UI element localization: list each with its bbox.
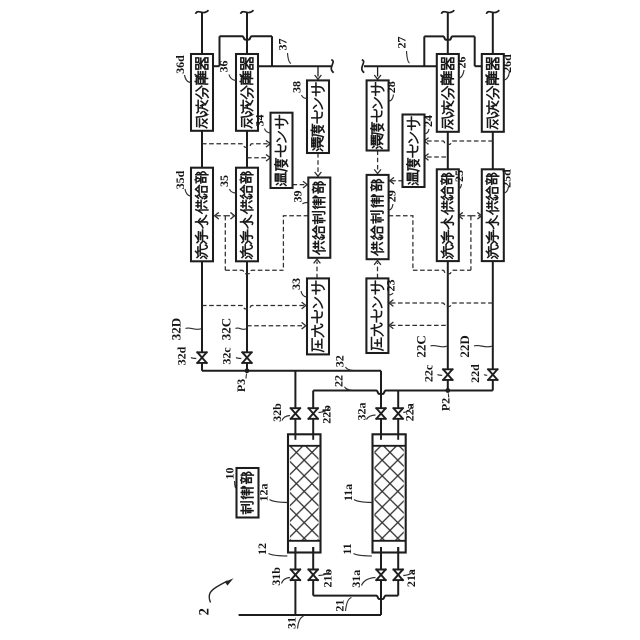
node P2 junction dot <box>445 388 450 393</box>
dashed line pressure sensor 23 to supply controller 29 <box>377 263 379 279</box>
dashed pressure tap riser D to pressure sensor 23 <box>391 303 493 306</box>
adsorption tower 11 with packed bed 11a <box>373 434 406 552</box>
svg-text:25: 25 <box>452 170 466 182</box>
svg-text:P3: P3 <box>234 379 248 392</box>
svg-text:36d: 36d <box>173 55 187 74</box>
svg-text:22: 22 <box>331 375 345 387</box>
dashed sensing line riser D to temperature sensor 24 <box>427 141 493 144</box>
pipe break mark top riser 26 <box>441 10 454 14</box>
svg-text:29: 29 <box>384 190 398 202</box>
svg-text:25d: 25d <box>499 169 513 188</box>
svg-text:35d: 35d <box>173 170 187 189</box>
valve 31b <box>291 570 300 581</box>
concentration sensor 28 <box>367 80 389 150</box>
svg-text:26: 26 <box>454 57 468 69</box>
dashed sensing line riser A to temperature sensor 34 <box>202 144 268 147</box>
controller 10 <box>237 468 259 518</box>
valve 21b <box>309 570 318 581</box>
wire tower 11 bottom pipes <box>380 547 382 570</box>
svg-text:22C: 22C <box>413 335 428 357</box>
wire line 21 connecting valves 21b and 21a <box>312 580 314 596</box>
svg-text:22c: 22c <box>422 364 436 382</box>
dashed control loop supply controller 29 to wash water units 25 25d <box>389 216 413 270</box>
gas-liquid separator 26 <box>437 54 459 132</box>
dashed control loop supply controller 39 to wash water units 35d 35 <box>283 216 308 270</box>
svg-text:11: 11 <box>340 543 354 554</box>
wire tower 12 bottom pipes <box>294 547 296 570</box>
dashed sensing line riser C to temperature sensor 24 <box>427 156 448 158</box>
svg-text:24: 24 <box>421 115 435 127</box>
svg-text:21a: 21a <box>404 569 418 587</box>
gas-liquid separator 36 <box>236 54 258 131</box>
concentration sensor 38 <box>307 80 329 153</box>
valve 21a <box>394 570 403 581</box>
wire header line 22 from P2 manifold with dip over drop 32a <box>313 391 493 394</box>
valve 22b <box>309 408 318 419</box>
wire riser pipe 22C <box>447 13 449 54</box>
supply controller 29 <box>367 175 389 259</box>
pipe break mark line 27 end <box>362 60 364 73</box>
svg-text:31: 31 <box>285 617 299 629</box>
pressure sensor 33 <box>307 278 329 354</box>
wash water supply 25 <box>437 169 459 261</box>
wash water supply 35 <box>236 168 258 262</box>
temperature sensor 34 <box>271 113 293 188</box>
wash water supply 25d <box>482 169 504 261</box>
svg-text:11a: 11a <box>341 484 355 501</box>
wire drop to valve 32a crossing header 22 <box>380 371 382 408</box>
svg-text:32b: 32b <box>270 403 284 422</box>
wire product line 27 with bracket over riser <box>364 65 437 67</box>
dashed pressure tap riser C to pressure sensor 23 <box>391 324 448 326</box>
valve 32c <box>242 352 251 363</box>
wire branch through valve 32b <box>294 371 296 408</box>
dashed line concentration sensor 38 to supply controller 39 <box>317 153 319 173</box>
dashed line temperature sensor 24 to supply controller 29 <box>391 180 402 182</box>
svg-text:32c: 32c <box>220 347 234 365</box>
wire line 31 bottom supply line <box>294 580 296 615</box>
pipe break mark top riser 36d <box>196 10 209 14</box>
svg-text:34: 34 <box>253 115 267 127</box>
valve 32b <box>291 408 300 419</box>
svg-text:2: 2 <box>197 608 213 615</box>
valve 22a <box>394 408 403 419</box>
svg-text:33: 33 <box>289 278 303 290</box>
wire riser pipe 22D <box>492 13 494 54</box>
dashed line concentration sensor 28 to supply controller 29 <box>377 151 379 171</box>
svg-text:22b: 22b <box>319 405 333 424</box>
svg-text:31b: 31b <box>269 567 283 586</box>
dashed line pressure sensor 33 to supply controller 39 <box>316 262 318 279</box>
svg-text:32a: 32a <box>354 403 368 421</box>
svg-text:35: 35 <box>217 175 231 187</box>
valve 32d <box>197 352 206 363</box>
svg-text:39: 39 <box>291 191 305 203</box>
svg-text:12: 12 <box>255 543 269 555</box>
pipe break mark top riser 36 <box>241 10 254 14</box>
adsorption tower 12 with packed bed 12a <box>288 434 321 552</box>
svg-text:28: 28 <box>384 81 398 93</box>
svg-text:10: 10 <box>223 468 237 480</box>
pipe break mark top riser 26d <box>486 10 499 14</box>
valve 22d <box>488 369 497 380</box>
valve 22c <box>443 369 452 380</box>
wire riser pipe 32C <box>246 13 248 54</box>
dashed pressure tap riser A to pressure sensor 33 <box>202 306 304 309</box>
wire header line 32 from P3 manifold <box>202 370 381 372</box>
svg-text:27: 27 <box>395 37 409 49</box>
gas-liquid separator 36d <box>191 54 213 131</box>
svg-text:P2: P2 <box>439 398 453 411</box>
svg-text:21b: 21b <box>320 568 334 587</box>
svg-text:23: 23 <box>384 280 398 292</box>
svg-text:32d: 32d <box>175 346 189 365</box>
svg-text:32C: 32C <box>219 318 234 340</box>
wire branch through valve 22b <box>312 391 314 409</box>
svg-text:26d: 26d <box>500 54 514 73</box>
svg-text:36: 36 <box>217 61 231 73</box>
temperature sensor 24 <box>403 115 425 188</box>
supply controller 39 <box>308 178 330 258</box>
gas-liquid separator 26d <box>482 54 504 132</box>
svg-text:37: 37 <box>276 39 290 51</box>
wire product line 37 with bracket over riser <box>213 65 220 67</box>
svg-text:38: 38 <box>290 81 304 93</box>
wire riser pipe 32D <box>201 13 203 54</box>
svg-text:12a: 12a <box>257 484 271 502</box>
valve 32a <box>376 408 385 419</box>
wash water supply 35d <box>191 168 213 262</box>
svg-text:22D: 22D <box>457 335 472 357</box>
arrow from line 37 down to concentration sensor 38 <box>317 66 319 76</box>
svg-text:22d: 22d <box>468 364 482 383</box>
svg-text:21: 21 <box>332 600 346 612</box>
valve 31a <box>376 570 385 581</box>
node P3 junction dot <box>245 368 250 373</box>
wire branch through valve 22a <box>397 391 399 409</box>
svg-text:32: 32 <box>332 355 346 367</box>
pressure sensor 23 <box>366 278 388 353</box>
svg-text:31a: 31a <box>349 570 363 588</box>
svg-text:32D: 32D <box>169 318 184 340</box>
dashed sensing line riser B to temperature sensor 34 <box>247 157 268 159</box>
dashed pressure tap riser B to pressure sensor 33 <box>247 325 304 327</box>
dashed line temperature sensor 34 to supply controller 39 <box>293 184 306 186</box>
arrow from line 27 down to concentration sensor 28 <box>377 66 379 76</box>
pipe break mark line 37 end <box>331 60 333 73</box>
